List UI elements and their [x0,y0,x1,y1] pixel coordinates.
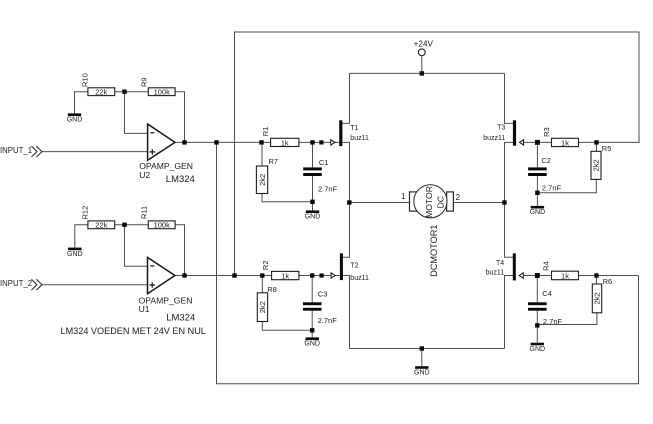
wire: motor node down to T2 drain [342,203,349,258]
svg-text:INPUT_1: INPUT_1 [0,146,32,155]
svg-text:R9: R9 [140,77,149,87]
svg-text:22k: 22k [95,88,107,97]
wire: T3 drain to +24V rail [505,73,514,123]
wire: feedback node down to U2 inverting input [125,92,149,134]
svg-text:GND: GND [67,251,83,258]
resistor R9 100k [148,88,175,97]
wire: R2 to T2 gate [299,275,340,277]
label U1 OPAMP_GEN [139,295,196,323]
node R3/R5 junction [594,140,598,144]
wire: +24V rail [350,72,505,74]
svg-text:T2: T2 [350,263,358,270]
svg-text:2.7nF: 2.7nF [318,316,338,325]
node C3 top junction [310,273,314,277]
capacitor C4 2.7nF [528,289,562,326]
svg-text:2.7nF: 2.7nF [318,184,338,193]
wire: T1 source to motor node [342,142,349,202]
resistor R8 2k2 [257,293,267,322]
svg-text:C1: C1 [319,158,329,167]
svg-text:R4: R4 [541,261,550,271]
wire: R3 to R5 node [579,141,597,143]
wire: motor right lead [453,202,504,204]
svg-text:R12: R12 [80,206,89,220]
wire: R12 left lead to ground [75,225,88,248]
wire: R6 top lead [596,276,598,285]
svg-text:LM324: LM324 [166,174,195,185]
transistor T4 buz11 [486,253,524,280]
resistor R10 22k [88,88,115,97]
wire: R5 top lead [596,142,598,151]
wire: C1 top lead [312,142,314,167]
wire: C3 top lead [311,276,313,303]
svg-text:2.7nF: 2.7nF [542,183,562,192]
svg-text:DCMOTOR1: DCMOTOR1 [429,224,439,276]
svg-text:INPUT_2: INPUT_2 [0,279,32,288]
wire: C4 top lead [536,276,538,303]
transistor T3 buzz11 [483,120,523,145]
node C1 bottom junction [310,200,314,204]
svg-text:C2: C2 [541,156,551,165]
capacitor C1 2.7nF [303,158,337,194]
svg-text:LM324: LM324 [166,312,195,323]
node T3 gate / C2 junction [535,140,540,145]
svg-text:2k2: 2k2 [258,301,267,313]
wire: T4 gate to R4 [524,275,552,277]
wire: U2 output to R1 [175,141,271,143]
node R10/R9 junction [122,90,126,94]
resistor R12 22k [88,221,115,230]
wire: R6 bottom to C4 bottom node [537,313,597,325]
node T2 gate pin [320,273,324,277]
svg-text:T1: T1 [350,125,358,132]
wire: +24V stub [421,56,423,74]
wire: T3 source to motor node [505,142,514,202]
wire: R2 node down to R8 [261,276,263,293]
power +24V [414,39,434,55]
svg-text:U2: U2 [139,170,150,180]
node C3 bottom junction [310,328,314,332]
svg-text:R10: R10 [80,73,89,87]
svg-text:R11: R11 [140,206,149,219]
wire: R10 left lead to ground [75,92,88,114]
port INPUT_2 [0,279,42,290]
node U1 output branch junction [232,273,236,277]
svg-text:R3: R3 [542,127,551,137]
ground under R12 [67,248,83,258]
wire: R8 bottom to C3 bottom node [262,322,312,331]
svg-text:GND: GND [530,346,546,353]
svg-text:1: 1 [401,192,406,201]
wire: R1 to T1 gate [299,141,339,143]
node bottom rail ground junction [420,346,424,350]
svg-text:1k: 1k [281,271,289,280]
resistor R4 1k [552,271,579,280]
wire: bridge bottom rail [350,348,505,350]
svg-text:R1: R1 [261,127,270,137]
transistor T2 buz11 [331,253,369,282]
node R1/R7 junction [259,140,263,144]
wire: R4 to R6 node and frame [579,275,639,277]
svg-text:buz11: buz11 [350,135,369,142]
svg-text:2: 2 [456,193,461,202]
capacitor C3 2.7nF [303,290,337,325]
resistor R3 1k [552,138,579,147]
svg-text:GND: GND [67,117,83,124]
svg-text:R7: R7 [269,157,279,166]
wire: U1 output feedback frame to R3/R5 node [235,32,640,276]
transistor T1 buz11 [331,120,369,146]
ground under C2 [530,206,546,216]
port INPUT_1 [0,146,42,157]
wire: T2 source down to bottom rail [342,276,349,349]
wire: T3 gate to R3 [524,141,552,143]
wire: C1 bottom lead to ground [312,176,314,210]
wire: R7 bottom to C1 bottom node [262,194,313,202]
svg-text:U1: U1 [139,304,150,314]
svg-text:LM324 VOEDEN MET 24V EN NUL: LM324 VOEDEN MET 24V EN NUL [61,326,206,336]
svg-text:2k2: 2k2 [593,292,602,304]
svg-text:R6: R6 [603,277,613,286]
wire: R10 to R9 segment [115,91,149,93]
svg-text:2k2: 2k2 [258,174,267,186]
node motor left junction [347,200,351,204]
svg-text:2.7nF: 2.7nF [543,317,563,326]
node T1 gate pin [319,140,323,144]
wire: bottom rail ground stub [421,349,423,367]
wire: U2 output feedback frame to R4/R6 node [217,142,639,383]
op-amp U2 OPAMP_GEN LM324 [148,124,175,160]
node U2 feedback junction [182,140,186,144]
wire: T4 source down to bottom rail [505,276,514,349]
svg-text:+24V: +24V [414,39,434,48]
svg-text:T4: T4 [496,260,504,267]
ground under C1 [305,210,321,220]
resistor R1 1k [271,138,299,147]
resistor R7 2k2 [256,166,267,194]
svg-text:1k: 1k [561,138,569,147]
svg-text:MOTOR: MOTOR [424,186,434,218]
wire: INPUT_2 to U1 non-inverting input [42,284,149,286]
wire: R9 right lead down to U2 output [175,92,184,143]
ground under C3 [304,337,320,347]
node C2 bottom junction [535,191,539,195]
wire: feedback node down to U1 inverting input [125,225,149,266]
resistor R2 1k [272,271,299,280]
svg-text:C3: C3 [318,290,328,299]
svg-text:R5: R5 [602,144,612,153]
motor DCMOTOR1 [410,185,454,218]
node U1 feedback junction [182,273,186,277]
node R12/R11 junction [122,223,126,227]
svg-text:buz11: buz11 [350,275,369,282]
svg-text:buz11: buz11 [486,270,505,277]
wire: R12 to R11 segment [115,224,149,226]
svg-text:R8: R8 [267,285,277,294]
svg-text:100k: 100k [154,221,171,230]
node motor right junction [502,200,506,204]
ground under R10 [67,113,83,123]
svg-text:R2: R2 [261,261,270,271]
capacitor C2 2.7nF [528,156,561,192]
wire: R5 bottom to C2 bottom node [537,179,596,192]
label U2 OPAMP_GEN [139,161,195,185]
svg-text:GND: GND [304,341,320,348]
op-amp U1 OPAMP_GEN LM324 [148,257,175,293]
wire: C3 bottom lead to ground [311,311,313,338]
svg-text:C4: C4 [542,289,552,298]
svg-text:22k: 22k [95,221,107,230]
node C4 bottom junction [535,323,539,327]
svg-text:GND: GND [305,214,321,221]
svg-text:100k: 100k [154,88,171,97]
node T4 gate / C4 junction [535,273,540,278]
node R4/R6 junction [594,273,598,277]
wire: R1 node down to R7 [261,142,263,166]
resistor R5 2k2 [591,151,601,179]
wire: C2 bottom lead to ground [536,176,538,206]
resistor R6 2k2 [592,284,601,313]
wire: INPUT_1 to U2 non-inverting input [42,151,149,153]
wire: R11 right lead down to U1 output [175,225,184,276]
svg-text:GND: GND [414,369,430,376]
ground under C4 [530,343,546,353]
wire: T1 drain to +24V rail [342,73,349,123]
svg-text:1k: 1k [561,271,569,280]
svg-text:buzz11: buzz11 [483,135,505,142]
wire: motor left lead [350,202,410,204]
wire: motor node down to T4 drain [505,203,514,258]
node R2/R8 junction [260,273,264,277]
svg-text:GND: GND [530,209,546,216]
node +24V junction [420,71,424,75]
svg-text:T3: T3 [497,125,505,132]
svg-text:1k: 1k [281,138,289,147]
node U2 output branch junction [214,140,218,144]
ground under bridge [414,366,430,376]
svg-text:DC: DC [436,196,446,208]
wire: U1 output to R2 [175,275,272,277]
node C1 top junction [310,140,314,144]
resistor R11 100k [148,221,175,230]
wire: C2 top lead [536,142,538,167]
wire: C4 bottom lead to ground [536,311,538,343]
svg-text:2k2: 2k2 [592,159,601,171]
